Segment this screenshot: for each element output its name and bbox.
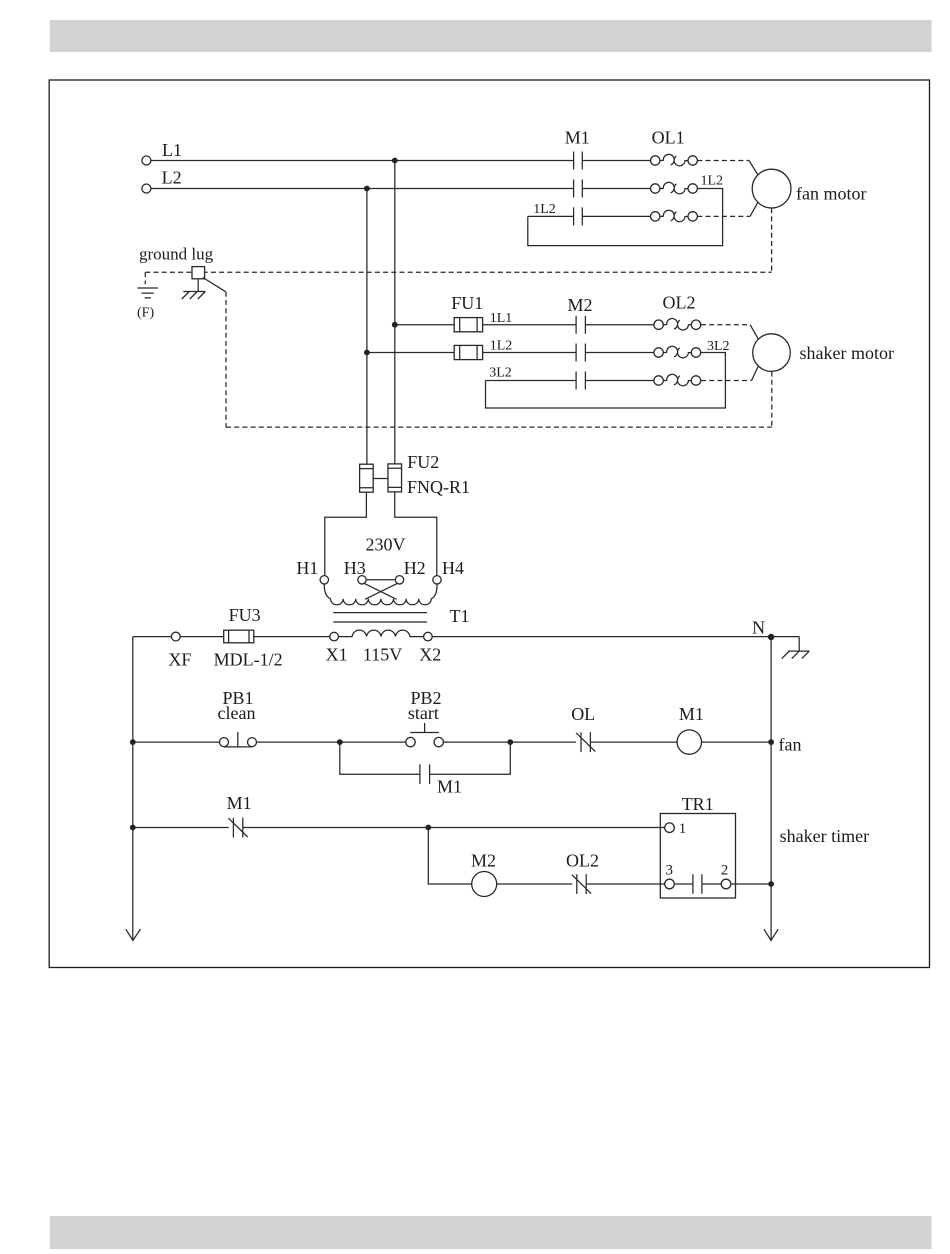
svg-text:M1: M1	[227, 793, 252, 813]
svg-text:(F): (F)	[137, 306, 154, 321]
svg-text:shaker motor: shaker motor	[800, 343, 894, 363]
svg-text:FNQ-R1: FNQ-R1	[407, 477, 470, 497]
svg-text:shaker timer: shaker timer	[780, 826, 869, 846]
svg-text:3L2: 3L2	[489, 366, 512, 381]
svg-text:M1: M1	[679, 704, 704, 724]
svg-text:fan motor: fan motor	[796, 184, 866, 204]
svg-text:X1: X1	[326, 645, 348, 665]
svg-text:OL1: OL1	[652, 128, 685, 148]
svg-text:3: 3	[666, 863, 674, 879]
svg-text:OL: OL	[571, 704, 595, 724]
svg-text:OL2: OL2	[566, 850, 599, 870]
svg-text:M1: M1	[565, 128, 590, 148]
svg-text:L2: L2	[162, 168, 182, 188]
svg-text:1L2: 1L2	[490, 339, 513, 354]
svg-text:M1: M1	[437, 776, 462, 796]
svg-text:clean: clean	[218, 703, 256, 723]
svg-text:L1: L1	[162, 140, 182, 160]
svg-text:FU3: FU3	[229, 605, 261, 625]
svg-text:H4: H4	[442, 558, 464, 578]
svg-text:X2: X2	[419, 645, 441, 665]
svg-text:2: 2	[721, 863, 729, 879]
svg-text:start: start	[408, 703, 439, 723]
svg-text:H1: H1	[296, 558, 318, 578]
svg-text:1L2: 1L2	[533, 202, 556, 217]
svg-text:H3: H3	[344, 558, 366, 578]
svg-text:1: 1	[679, 821, 687, 837]
svg-text:115V: 115V	[363, 645, 402, 665]
svg-text:H2: H2	[404, 558, 426, 578]
svg-text:FU1: FU1	[451, 293, 483, 313]
svg-text:M2: M2	[471, 851, 496, 871]
svg-text:1L1: 1L1	[490, 311, 513, 326]
svg-text:3L2: 3L2	[707, 339, 730, 354]
svg-text:M2: M2	[568, 295, 593, 315]
svg-text:ground lug: ground lug	[139, 245, 214, 264]
svg-text:OL2: OL2	[663, 293, 696, 313]
svg-text:FU2: FU2	[407, 452, 439, 472]
svg-text:XF: XF	[168, 649, 191, 669]
svg-text:T1: T1	[450, 606, 470, 626]
svg-text:230V: 230V	[366, 535, 406, 555]
svg-text:MDL-1/2: MDL-1/2	[214, 649, 283, 669]
svg-text:N: N	[752, 617, 765, 637]
svg-text:fan: fan	[779, 735, 802, 755]
svg-text:TR1: TR1	[682, 794, 714, 814]
svg-text:1L2: 1L2	[701, 173, 724, 188]
